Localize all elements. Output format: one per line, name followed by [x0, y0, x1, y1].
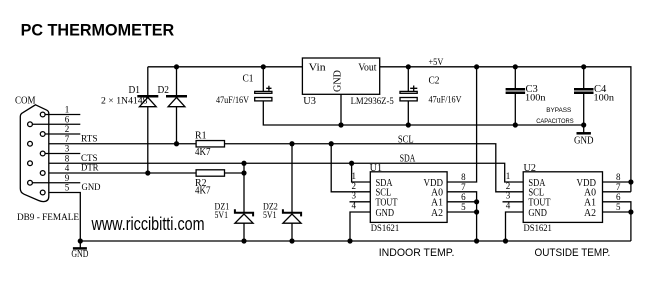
junction D2 top rail [174, 64, 179, 69]
svg-text:7: 7 [65, 134, 70, 144]
svg-text:2: 2 [506, 181, 511, 191]
wire power ground rail C1 to C4 [263, 101, 583, 125]
junction U3 GND ground rail [338, 122, 343, 127]
svg-text:6: 6 [461, 192, 466, 202]
svg-text:CTS: CTS [81, 153, 98, 163]
junction C4 ground rail [581, 122, 586, 127]
connector J1 DB9 female shell [20, 105, 49, 202]
wire U3 GND pin to power ground rail [340, 94, 342, 125]
svg-text:U3: U3 [303, 96, 316, 107]
svg-text:DB9 - FEMALE: DB9 - FEMALE [17, 212, 80, 222]
svg-text:PC THERMOMETER: PC THERMOMETER [21, 20, 175, 39]
diode D1 1N4148 [147, 67, 149, 96]
wire bottom ground rail [80, 240, 631, 242]
svg-text:OUTSIDE TEMP.: OUTSIDE TEMP. [535, 247, 611, 259]
pin 2 of DB9 [40, 132, 45, 137]
svg-text:+5V: +5V [429, 58, 444, 68]
junction C2 +5V rail [406, 64, 411, 69]
wire U2 pin5 A2 [603, 211, 631, 213]
junction DB9 ground bottom rail [78, 238, 83, 243]
wire top supply rail from D1 to U3 Vin [148, 66, 303, 68]
wire U1 pin1 SDA drop [352, 163, 371, 182]
svg-text:COM: COM [15, 95, 36, 106]
svg-text:2: 2 [65, 124, 70, 134]
svg-text:5: 5 [616, 202, 621, 212]
wire U1 pin3 TOUT stub [350, 201, 371, 203]
pin 5 of DB9 GND [40, 190, 45, 195]
svg-text:DS1621: DS1621 [524, 223, 552, 233]
wire U2 pin8 VDD to +5V vertical [603, 181, 631, 183]
IC U2 DS1621 [523, 172, 602, 223]
svg-text:5: 5 [65, 183, 70, 193]
svg-text:2 × 1N4148: 2 × 1N4148 [101, 97, 148, 107]
junction C4 +5V rail [581, 64, 586, 69]
pin 1 of DB9 [40, 112, 45, 117]
junction R2 DZ1 DTR [241, 170, 246, 175]
svg-text:3: 3 [352, 191, 357, 201]
junction U2 pin8 VDD [628, 179, 633, 184]
wire U1 pin8 VDD to +5V rail [447, 67, 477, 182]
svg-text:5: 5 [461, 202, 466, 212]
ground symbol at DB9 [79, 241, 81, 248]
svg-text:Vout: Vout [358, 63, 377, 74]
wire U2 pin3 TOUT stub [503, 201, 524, 203]
svg-text:4K7: 4K7 [195, 147, 211, 158]
junction DZ2 SCL [289, 141, 294, 146]
svg-text:8: 8 [616, 172, 621, 182]
wire +5V rail from U3 Vout to far right, down to U2 pin7 [380, 67, 631, 192]
svg-text:47uF/16V: 47uF/16V [429, 96, 462, 106]
resistor R1 4K7 [196, 141, 224, 147]
wire DTR net from DB9 pin4 through R2 to DZ1 junction [45, 172, 244, 174]
svg-text:100n: 100n [525, 94, 546, 104]
svg-text:GND: GND [376, 208, 395, 219]
svg-text:8: 8 [461, 172, 466, 182]
svg-text:SCL: SCL [398, 134, 414, 145]
junction C3 +5V rail [513, 64, 518, 69]
svg-text:47uF/16V: 47uF/16V [216, 96, 249, 106]
wire U2 pin4 GND to bottom rail [506, 212, 524, 241]
svg-text:1: 1 [506, 171, 511, 181]
svg-text:SDA: SDA [400, 154, 416, 165]
svg-text:4: 4 [65, 163, 70, 173]
capacitor C3 100n [514, 67, 516, 89]
svg-text:A2: A2 [584, 208, 596, 219]
wire U2 pin6 A1 to ground rail [603, 202, 631, 241]
svg-text:5V1: 5V1 [263, 211, 277, 221]
svg-text:7: 7 [616, 182, 621, 192]
svg-text:C1: C1 [243, 74, 254, 85]
svg-text:GND: GND [574, 135, 594, 146]
pin 3 of DB9 [40, 151, 45, 156]
pin 4 of DB9 DTR [40, 171, 45, 176]
svg-text:4: 4 [506, 201, 511, 211]
junction U1 pin5 A2 [474, 209, 479, 214]
svg-text:4: 4 [352, 201, 357, 211]
wire U1 pin6 A1 [447, 201, 477, 203]
svg-text:GND: GND [333, 70, 344, 92]
junction U1 VDD +5V rail [474, 64, 479, 69]
svg-text:5V1: 5V1 [215, 211, 229, 221]
svg-text:4K7: 4K7 [195, 185, 211, 196]
svg-text:1: 1 [352, 171, 357, 181]
svg-text:BYPASS: BYPASS [546, 107, 572, 114]
svg-text:U2: U2 [524, 163, 536, 174]
pin 8 of DB9 CTS [28, 161, 33, 166]
junction DZ1 SDA [241, 161, 246, 166]
svg-text:100n: 100n [594, 94, 615, 104]
junction C1 top rail [261, 64, 266, 69]
junction D2 SCL [174, 141, 179, 146]
junction D1 DTR [145, 170, 150, 175]
junction U1 A pins bottom rail [474, 238, 479, 243]
wire SCL net from DB9 pin7 through R1 to U2 pin2 [32, 144, 523, 192]
zener diode DZ1 5V1 [243, 163, 245, 212]
svg-text:6: 6 [616, 192, 621, 202]
pin 9 of DB9 [28, 180, 33, 185]
wire SDA net from DB9 pin8 through to U2 pin1 [32, 163, 523, 182]
svg-text:GND: GND [71, 249, 88, 260]
junction U1 pin1 SDA [349, 161, 354, 166]
svg-text:GND: GND [82, 182, 101, 192]
svg-text:INDOOR TEMP.: INDOOR TEMP. [379, 247, 455, 259]
svg-text:CAPACITORS: CAPACITORS [536, 118, 574, 125]
junction C2 ground rail [406, 122, 411, 127]
svg-text:2: 2 [352, 181, 357, 191]
capacitor C2 47uF/16V [407, 67, 409, 92]
svg-text:LM2936Z-5: LM2936Z-5 [351, 97, 395, 107]
capacitor C1 47uF/16V [262, 67, 264, 92]
svg-text:RTS: RTS [81, 133, 98, 143]
svg-text:6: 6 [65, 114, 70, 124]
junction U2 GND bottom rail [503, 238, 508, 243]
wire U1 pin2 SCL drop [331, 144, 370, 192]
svg-text:www.riccibitti.com: www.riccibitti.com [91, 214, 205, 234]
junction U1 pin6 A1 [474, 199, 479, 204]
svg-text:1: 1 [65, 105, 70, 115]
svg-text:A2: A2 [431, 208, 443, 219]
wire U1 pin5 A2 [447, 211, 477, 213]
svg-text:8: 8 [65, 153, 70, 163]
svg-text:DTR: DTR [81, 163, 99, 173]
junction C3 ground rail [513, 122, 518, 127]
wire U1 pin7 A0 to ground rail [447, 192, 477, 241]
junction DZ1 bottom rail [241, 238, 246, 243]
IC U1 DS1621 [370, 172, 447, 223]
svg-text:D2: D2 [158, 85, 170, 96]
ground symbol below C4 [577, 132, 591, 135]
regulator U3 LM2936Z-5 [302, 58, 379, 94]
junction U1 pin2 SCL [329, 141, 334, 146]
pin 6 of DB9 [28, 122, 33, 127]
svg-text:R1: R1 [195, 131, 207, 142]
svg-text:U1: U1 [370, 163, 382, 174]
svg-text:3: 3 [65, 144, 70, 154]
svg-text:Vin: Vin [309, 63, 326, 74]
zener diode DZ2 5V1 [291, 144, 293, 212]
wire DB9 pin5 ground to bottom rail [45, 193, 80, 242]
svg-text:C2: C2 [429, 76, 440, 87]
capacitor C4 100n [583, 67, 585, 89]
junction U2 pin5 A2 [628, 209, 633, 214]
wire U1 pin4 GND to bottom rail [350, 212, 370, 241]
wire U2 pin7 A0 to +5V vertical [603, 191, 631, 193]
junction DZ2 bottom rail [289, 238, 294, 243]
svg-text:9: 9 [65, 173, 70, 183]
svg-text:DS1621: DS1621 [371, 223, 399, 233]
resistor R2 4K7 [196, 170, 224, 176]
svg-text:3: 3 [506, 191, 511, 201]
svg-text:GND: GND [528, 208, 547, 219]
svg-text:D1: D1 [129, 85, 141, 96]
svg-text:7: 7 [461, 182, 466, 192]
diode D2 1N4148 [176, 67, 178, 96]
junction U1 GND bottom rail [347, 238, 352, 243]
pin 7 of DB9 RTS [28, 141, 33, 146]
